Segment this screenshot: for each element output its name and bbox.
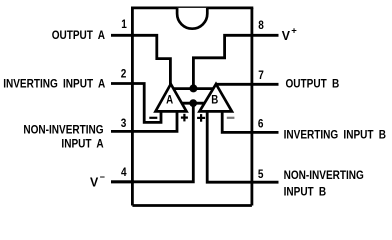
svg-text:B: B: [211, 94, 218, 107]
svg-text:INPUT B: INPUT B: [284, 185, 327, 198]
svg-text:4: 4: [121, 166, 127, 179]
svg-text:1: 1: [121, 18, 127, 31]
svg-text:−: −: [100, 172, 105, 182]
svg-text:NON-INVERTING: NON-INVERTING: [284, 169, 364, 182]
svg-text:OUTPUT B: OUTPUT B: [286, 78, 340, 91]
svg-text:V: V: [90, 175, 99, 189]
svg-text:6: 6: [258, 118, 264, 131]
svg-text:OUTPUT A: OUTPUT A: [52, 29, 105, 42]
svg-text:A: A: [166, 94, 173, 107]
svg-text:INPUT A: INPUT A: [61, 138, 103, 151]
svg-text:2: 2: [121, 68, 127, 81]
svg-text:INVERTING INPUT B: INVERTING INPUT B: [284, 128, 386, 141]
svg-text:3: 3: [121, 117, 127, 130]
svg-text:+: +: [291, 25, 297, 36]
svg-text:7: 7: [258, 69, 264, 82]
svg-text:V: V: [282, 29, 291, 43]
svg-text:NON-INVERTING: NON-INVERTING: [23, 124, 103, 137]
svg-text:8: 8: [258, 19, 264, 32]
svg-text:5: 5: [258, 168, 264, 181]
svg-text:INVERTING INPUT A: INVERTING INPUT A: [3, 78, 105, 91]
